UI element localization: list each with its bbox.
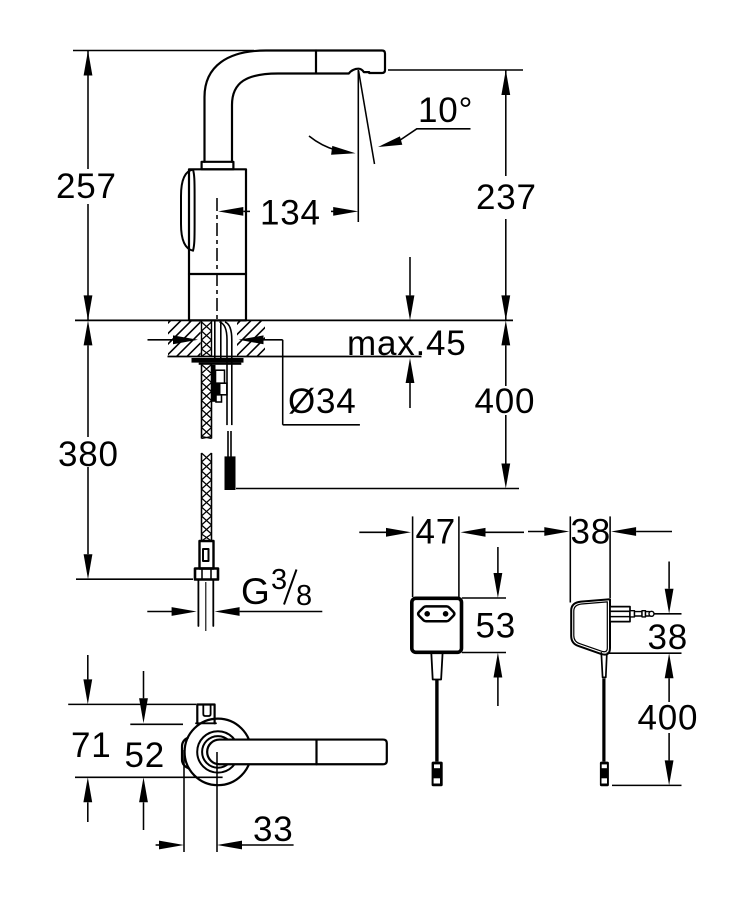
svg-text:G: G	[241, 571, 270, 612]
pipe center line	[205, 582, 207, 631]
dim 53	[497, 547, 499, 573]
sensor box slot	[203, 705, 210, 717]
dims bottom reference line	[75, 776, 223, 778]
svg-text:3: 3	[271, 564, 287, 596]
dim G3/8 arrows	[147, 611, 172, 613]
dim 237 top reference line	[388, 69, 523, 71]
label 10deg leader	[398, 129, 471, 142]
dim 47	[359, 531, 386, 533]
strain relief stem	[431, 653, 442, 680]
svg-text:8: 8	[296, 580, 312, 612]
supply pipe in hole	[214, 320, 216, 358]
svg-text:33: 33	[253, 810, 294, 849]
svg-text:257: 257	[56, 167, 117, 206]
svg-text:134: 134	[260, 194, 321, 233]
dim 400 bottom reference line side	[612, 784, 682, 786]
connection pipe below nut	[197, 580, 199, 627]
dim 134	[218, 207, 243, 216]
mounting flange under counter	[192, 358, 244, 363]
svg-text:71: 71	[71, 726, 112, 765]
spout outlet stream axis line	[357, 70, 359, 222]
plan view sensor box	[197, 705, 214, 724]
dim 380	[84, 320, 93, 345]
dim 400 right side	[665, 653, 674, 678]
spout pull-out head separator	[315, 51, 317, 74]
dim 33	[156, 844, 160, 846]
power supply side view body	[571, 599, 610, 654]
dim 38 right	[668, 562, 670, 589]
dim 237	[505, 70, 507, 176]
braided flex hose upper	[201, 365, 203, 439]
svg-text:400: 400	[475, 382, 536, 421]
plan view spout arm	[207, 740, 387, 765]
socket pin holes	[424, 611, 430, 617]
plan view lever bump	[182, 738, 189, 769]
spout arm divider	[315, 740, 317, 765]
euro socket outline	[418, 606, 454, 621]
svg-text:Ø34: Ø34	[288, 382, 357, 421]
svg-text:38: 38	[571, 513, 612, 552]
countertop bottom line	[168, 356, 422, 358]
countertop line	[75, 319, 513, 321]
dim Phi34	[148, 339, 174, 341]
cable connector front	[432, 762, 443, 787]
body mid joint line	[189, 273, 246, 275]
sensor cable below counter	[226, 358, 228, 425]
dim 38 top extension lines	[569, 516, 571, 602]
dim 52	[143, 671, 145, 698]
svg-text:10°: 10°	[418, 91, 473, 130]
cable front	[435, 680, 438, 762]
svg-text:38: 38	[648, 618, 689, 657]
cable side	[602, 679, 605, 762]
sensor box base	[196, 722, 216, 724]
threaded shank in countertop hole	[201, 321, 203, 357]
angle arc with arrowhead	[309, 136, 337, 151]
countertop hatching left	[134, 320, 234, 357]
countertop hatching right	[204, 320, 293, 357]
sensor cable plug	[225, 456, 236, 490]
jack pin	[630, 611, 635, 617]
lever handle	[181, 170, 195, 251]
svg-text:52: 52	[125, 736, 166, 775]
plan view inner ring	[197, 731, 238, 772]
sensor cable curving under counter	[220, 322, 232, 358]
dim 400 right	[501, 320, 510, 345]
svg-text:380: 380	[58, 435, 119, 474]
dim 47 extension lines	[412, 516, 414, 597]
dim 71	[87, 655, 89, 679]
mounting bracket and nut	[212, 365, 216, 402]
svg-text:53: 53	[476, 607, 517, 646]
body center line (dashed)	[216, 198, 218, 320]
faucet spout outline	[205, 51, 386, 162]
strain relief stem side	[601, 653, 607, 678]
hose crimp fitting	[200, 541, 214, 569]
G3/8 connection nut	[195, 569, 218, 580]
braided flex hose lower	[201, 453, 203, 541]
svg-text:237: 237	[476, 178, 537, 217]
dim 53 reference lines	[462, 597, 506, 599]
faucet collar	[202, 162, 234, 170]
wall plug base	[610, 607, 630, 622]
body inner line	[574, 602, 608, 652]
faucet body	[189, 169, 246, 320]
svg-text:47: 47	[416, 513, 457, 552]
dim 257	[87, 51, 89, 170]
dim 71 top reference line	[68, 703, 196, 705]
dim 400 bottom reference line (cable end level)	[236, 488, 519, 490]
dim max.45	[409, 257, 411, 295]
dim 38 right reference lines	[654, 613, 682, 615]
power supply front view box	[412, 598, 462, 652]
dim 38 top	[528, 531, 545, 533]
dim 52 top reference line	[130, 723, 183, 725]
cable connector side	[600, 762, 609, 787]
dim 33 extension lines	[183, 750, 185, 852]
dim 257 top reference line	[73, 50, 254, 52]
svg-text:max.45: max.45	[347, 324, 467, 363]
10-degree tilted stream line	[359, 71, 375, 165]
svg-text:400: 400	[638, 699, 699, 738]
plan view outer body circle	[185, 719, 252, 786]
dim 380 bottom reference line	[76, 578, 193, 580]
